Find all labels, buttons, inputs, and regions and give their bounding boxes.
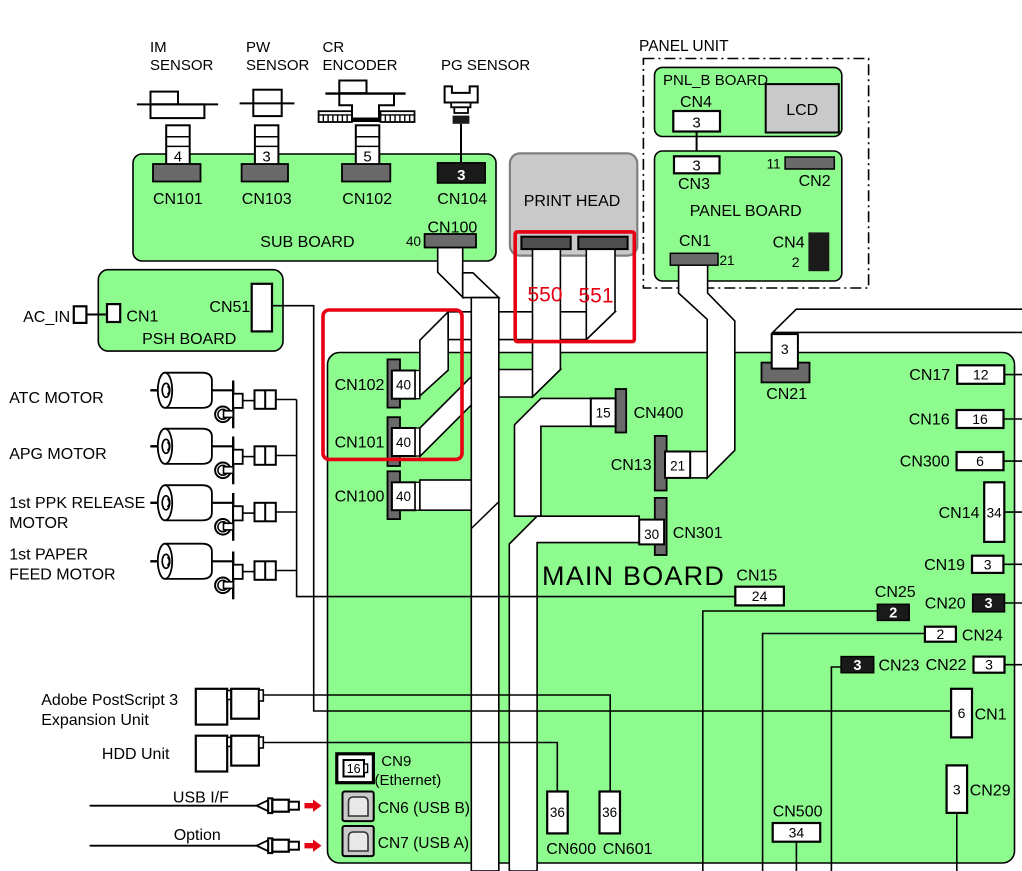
svg-text:11: 11 (767, 157, 781, 172)
ribbon fold line (strip to CN100 ribbon) (471, 502, 499, 529)
svg-text:CN102: CN102 (335, 377, 385, 394)
connector CN51 (PSH board) (252, 284, 272, 332)
wire Option (90, 845, 257, 847)
svg-text:CN4: CN4 (773, 235, 805, 252)
terminal box on bar (233, 565, 243, 579)
connector CN400 (main board) (616, 389, 627, 433)
terminal box on bar (233, 506, 243, 520)
ribbon cable 550 (533, 242, 561, 397)
connector CN1 (panel board) (670, 253, 718, 265)
svg-text:CN600: CN600 (546, 841, 596, 858)
wire motor to terminal bar (212, 560, 233, 562)
svg-text:40: 40 (406, 234, 421, 249)
svg-text:CN100: CN100 (335, 489, 385, 506)
wire CN500 to bottom (795, 842, 797, 871)
terminal bar (232, 437, 234, 485)
svg-text:3: 3 (953, 782, 961, 798)
svg-text:16: 16 (972, 411, 988, 427)
svg-text:40: 40 (396, 489, 411, 504)
svg-text:FEED MOTOR: FEED MOTOR (9, 567, 115, 584)
wire CN300 to right edge (1004, 460, 1022, 462)
svg-text:1st PAPER: 1st PAPER (9, 547, 88, 564)
connector CN601 (main board) (600, 792, 621, 834)
ribbon fold band (SUB CN100 cable) (463, 273, 499, 298)
inline connector (2 cells) (255, 390, 276, 409)
svg-text:CN301: CN301 (673, 525, 723, 542)
svg-text:CN29: CN29 (970, 782, 1011, 799)
wire PG sensor to CN104 (460, 124, 462, 164)
red arrow (USB I/F) (305, 800, 322, 812)
svg-text:3: 3 (457, 167, 465, 184)
pin box 21 (CN13) (665, 452, 690, 478)
svg-text:CN19: CN19 (924, 557, 965, 574)
connector CN14 (main board) (984, 482, 1004, 542)
ribbon fold band to CN102 (420, 312, 448, 396)
svg-text:Adobe PostScript 3: Adobe PostScript 3 (41, 692, 178, 709)
svg-text:16: 16 (347, 762, 361, 776)
terminal box on bar (233, 450, 243, 464)
svg-text:6: 6 (976, 453, 984, 469)
svg-text:3: 3 (985, 657, 993, 673)
svg-text:551: 551 (579, 285, 614, 308)
svg-text:36: 36 (550, 805, 565, 820)
connector CN300 (main board) (957, 452, 1004, 470)
svg-text:3: 3 (985, 596, 993, 612)
svg-text:CN4: CN4 (680, 94, 712, 111)
svg-text:IM: IM (150, 39, 167, 56)
red annotation box (CN102/CN101) (323, 310, 462, 459)
CR encoder scale strips (319, 111, 352, 122)
svg-text:CN2: CN2 (799, 173, 831, 190)
board SUB BOARD (133, 154, 496, 261)
connector CN104 (sub board, black) (438, 163, 486, 183)
inline connector (2 cells) (255, 561, 276, 580)
svg-text:CN6 (USB B): CN6 (USB B) (378, 800, 470, 817)
cable plug 5-pin (CR) (356, 125, 380, 165)
svg-text:30: 30 (644, 527, 659, 542)
svg-text:CN23: CN23 (879, 658, 920, 675)
cable plug 4-pin (IM) (166, 125, 190, 165)
svg-text:ATC MOTOR: ATC MOTOR (9, 390, 104, 407)
svg-text:CN1: CN1 (975, 707, 1007, 724)
CR encoder symbol (339, 81, 366, 94)
svg-text:CN104: CN104 (437, 191, 487, 208)
connector CN100 (sub board) (425, 234, 476, 248)
wire connector to bus (276, 399, 297, 401)
ribbon cable 551 (586, 242, 615, 340)
svg-text:CN15: CN15 (736, 568, 777, 585)
svg-text:CN9: CN9 (381, 753, 411, 770)
clutch symbol (215, 407, 231, 423)
wire CN24 to bottom (763, 634, 925, 871)
svg-text:CN400: CN400 (634, 405, 684, 422)
connector CN3 (panel board) (674, 156, 720, 173)
wire connector to bus (276, 455, 297, 457)
svg-text:ENCODER: ENCODER (323, 57, 398, 74)
svg-text:MOTOR: MOTOR (9, 515, 68, 532)
svg-text:CN1: CN1 (126, 309, 158, 326)
USB I/F cable plug (257, 800, 269, 811)
terminal bar (232, 493, 234, 541)
pin box 15 (CN400) (591, 398, 616, 426)
connector CN19 (main board) (972, 556, 1003, 573)
connector CN17 (main board) (957, 365, 1004, 384)
svg-text:2: 2 (889, 606, 897, 622)
svg-text:3: 3 (984, 556, 992, 572)
AC inlet plug (74, 306, 87, 323)
svg-text:CN300: CN300 (900, 454, 950, 471)
connector CN2 (panel board) (785, 157, 834, 169)
svg-text:CN102: CN102 (342, 191, 392, 208)
svg-text:5: 5 (363, 149, 371, 166)
svg-text:HDD Unit: HDD Unit (102, 746, 170, 763)
svg-text:CN500: CN500 (773, 804, 823, 821)
connector CN103 (sub board) (242, 164, 288, 182)
wire CN20 to right edge (1005, 602, 1022, 604)
ribbon cable CN301 (509, 516, 639, 871)
wire AC_IN to CN1 (86, 314, 107, 316)
svg-text:6: 6 (958, 705, 966, 721)
PRINT HEAD unit (510, 153, 637, 255)
connector CN13 (main board) (655, 436, 667, 491)
svg-text:24: 24 (752, 588, 768, 604)
wire to inline connector (243, 512, 255, 514)
connector CN22 (main board) (974, 657, 1005, 673)
svg-text:LCD: LCD (786, 102, 818, 119)
svg-text:CN20: CN20 (925, 596, 966, 613)
svg-text:3: 3 (262, 149, 270, 166)
ribbon cable CN21 to right edge (773, 309, 1022, 332)
svg-text:21: 21 (720, 253, 735, 268)
svg-text:CN101: CN101 (153, 191, 203, 208)
svg-text:USB I/F: USB I/F (173, 790, 229, 807)
svg-text:PRINT HEAD: PRINT HEAD (524, 193, 621, 210)
motor M4 (1st PAPER FEED MOTOR) (150, 560, 166, 562)
wire CN25 to bottom (703, 611, 878, 871)
terminal bar (232, 381, 234, 429)
connector CN600 (main board) (547, 792, 568, 834)
board MAIN BOARD (328, 353, 1015, 864)
svg-text:SENSOR: SENSOR (150, 57, 214, 74)
connector CN9 Ethernet (337, 754, 374, 783)
wire CN29 to bottom (956, 813, 958, 871)
connector CN102 (main board) (388, 359, 401, 407)
wire CN19 to right edge (1003, 563, 1022, 565)
svg-text:PG SENSOR: PG SENSOR (441, 57, 530, 74)
svg-text:CN103: CN103 (242, 191, 292, 208)
inline connector (2 cells) (255, 503, 276, 522)
clutch symbol (215, 519, 231, 535)
pin box 40 (CN101) (392, 428, 415, 456)
plug symbol (HDD unit) (196, 736, 227, 772)
svg-text:CN51: CN51 (209, 299, 250, 316)
connector CN1 (PSH board) (107, 304, 120, 322)
PW sensor symbol (253, 90, 281, 116)
svg-text:CN601: CN601 (603, 841, 653, 858)
svg-text:CN24: CN24 (962, 627, 1003, 644)
wire CN14 to right edge (1004, 511, 1022, 513)
svg-text:CN16: CN16 (909, 412, 950, 429)
ribbon stub into CN13 (690, 452, 707, 478)
pin box 40 (CN100) (392, 482, 415, 510)
svg-text:4: 4 (174, 149, 182, 166)
LCD module (766, 84, 839, 132)
svg-text:CN22: CN22 (926, 657, 967, 674)
svg-text:CN17: CN17 (909, 367, 950, 384)
connector CN21 (main board) (762, 363, 810, 383)
pin box 30 (CN301) (639, 520, 664, 545)
ribbon cable CN100 (main) (420, 480, 480, 510)
svg-text:550: 550 (528, 284, 563, 307)
wire CN17 to right edge (1004, 374, 1022, 376)
connector CN7 USB A (343, 826, 374, 856)
clutch symbol (215, 578, 231, 594)
svg-text:CN14: CN14 (939, 505, 980, 522)
motor M3 (1st PPK RELEASE MOTOR) (150, 502, 166, 504)
svg-text:3: 3 (853, 658, 861, 674)
svg-text:CN101: CN101 (335, 435, 385, 452)
svg-text:PANEL BOARD: PANEL BOARD (690, 203, 802, 220)
wire CN4 to CN3 (696, 132, 698, 157)
wire to inline connector (243, 571, 255, 573)
IM sensor symbol (151, 92, 179, 105)
svg-text:(Ethernet): (Ethernet) (375, 772, 442, 789)
svg-text:CN1: CN1 (679, 233, 711, 250)
connector CN24 (main board) (925, 627, 956, 642)
svg-text:PANEL UNIT: PANEL UNIT (639, 38, 729, 55)
connector CN4 (PNL_B board) (673, 111, 720, 132)
wire connector to bus (276, 570, 297, 572)
connector CN1 (main board) (951, 689, 972, 738)
terminal box on bar (233, 394, 243, 408)
ribbon fold band to CN101 (420, 361, 487, 457)
wire connector to bus (276, 511, 297, 513)
svg-text:CN7 (USB A): CN7 (USB A) (378, 835, 469, 852)
connector CN500 (main board) (773, 823, 821, 842)
svg-text:Expansion Unit: Expansion Unit (41, 712, 149, 729)
connector CN101 (sub board) (153, 164, 201, 182)
board PSH BOARD (98, 270, 283, 351)
svg-text:PSH BOARD: PSH BOARD (142, 331, 236, 348)
wire Adobe PS3 unit to CN601 (263, 695, 610, 792)
connector CN102 (sub board) (342, 164, 390, 182)
motor M2 (APG MOTOR) (150, 445, 166, 447)
board PNL_B BOARD (655, 67, 842, 136)
connector CN16 (main board) (957, 410, 1004, 428)
svg-text:12: 12 (973, 367, 989, 383)
svg-text:21: 21 (670, 459, 685, 474)
svg-text:CN13: CN13 (611, 457, 652, 474)
connector CN29 (main board) (947, 765, 968, 813)
red arrow (Option) (305, 840, 322, 852)
wire motor bus to CN15 (297, 400, 736, 597)
svg-text:34: 34 (987, 505, 1003, 520)
wire CN16 to right edge (1004, 418, 1022, 420)
connector CN23 (main board, black) (841, 657, 874, 673)
svg-text:3: 3 (692, 115, 700, 132)
plug symbol (Adobe PS3 unit) (196, 689, 227, 725)
svg-text:40: 40 (396, 435, 411, 450)
connector CN301 (main board) (655, 498, 667, 555)
ribbon cable CN400 (515, 398, 592, 516)
svg-text:2: 2 (937, 626, 945, 642)
board PANEL BOARD (655, 151, 842, 281)
PANEL UNIT dash-dot enclosure (643, 59, 868, 289)
pin box 3 (CN21) (772, 334, 798, 369)
svg-text:PNL_B BOARD: PNL_B BOARD (663, 72, 768, 89)
wire motor to terminal bar (212, 389, 233, 391)
svg-text:3: 3 (692, 158, 700, 175)
pin box 40 (CN102) (392, 371, 415, 399)
wire CN23 to bottom (831, 667, 841, 871)
connector CN15 (main board) (735, 587, 784, 606)
wire to inline connector (243, 400, 255, 402)
Option cable plug (257, 840, 269, 851)
print head connector 550 (521, 237, 570, 249)
wire to inline connector (243, 456, 255, 458)
svg-text:CN21: CN21 (766, 386, 807, 403)
connector CN101 (main board) (388, 417, 401, 466)
connector CN25 (main board, black) (877, 604, 909, 620)
wire USB I/F (90, 805, 257, 807)
ribbon band 551-CN102 (horizontal) (448, 312, 615, 340)
terminal bar (232, 552, 234, 600)
svg-text:34: 34 (789, 825, 805, 841)
svg-text:2: 2 (792, 254, 800, 270)
svg-text:CR: CR (323, 39, 345, 56)
connector CN4 (panel board, black) (808, 232, 829, 271)
svg-text:15: 15 (596, 406, 611, 421)
svg-text:SENSOR: SENSOR (246, 57, 310, 74)
wire motor to terminal bar (212, 445, 233, 447)
connector CN6 USB B (343, 792, 374, 822)
PG sensor terminal (black) (453, 116, 470, 124)
ribbon cable SUB CN100 (upper segment) (438, 248, 463, 298)
wire motor to terminal bar (212, 502, 233, 504)
red annotation box (print head connectors) (515, 232, 634, 342)
svg-text:Option: Option (174, 827, 221, 844)
ribbon cable PANEL CN1 to CN13 (679, 258, 735, 478)
inline connector (2 cells) (255, 446, 276, 465)
svg-text:SUB BOARD: SUB BOARD (260, 234, 354, 251)
svg-text:CN25: CN25 (875, 584, 916, 601)
motor M1 (ATC MOTOR) (150, 389, 166, 391)
svg-text:36: 36 (602, 805, 617, 820)
wire CN22 to right edge (1005, 664, 1022, 666)
print head connector 551 (578, 237, 627, 249)
svg-text:1st PPK RELEASE: 1st PPK RELEASE (9, 495, 145, 512)
wire HDD unit to CN600 (263, 743, 557, 792)
svg-text:APG MOTOR: APG MOTOR (9, 446, 107, 463)
svg-text:MAIN BOARD: MAIN BOARD (542, 561, 725, 591)
svg-text:40: 40 (396, 377, 411, 392)
cable plug 3-pin (PW) (255, 125, 279, 165)
PG sensor symbol (445, 86, 478, 102)
ribbon cable vertical strip to MAIN CN100 (471, 298, 499, 871)
svg-text:AC_IN: AC_IN (23, 309, 70, 326)
wire PSH CN51 to MAIN CN1 (272, 306, 951, 711)
svg-text:PW: PW (246, 39, 271, 56)
clutch symbol (215, 463, 231, 479)
connector CN100 (main board) (388, 471, 401, 519)
svg-text:3: 3 (781, 341, 789, 357)
connector CN20 (main board) (973, 594, 1005, 612)
ribbon band 550-CN101 (horizontal) (480, 370, 560, 398)
svg-text:CN3: CN3 (678, 176, 710, 193)
